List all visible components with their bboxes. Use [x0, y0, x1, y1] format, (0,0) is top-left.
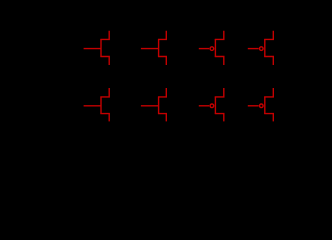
wire drain lead M7 [215, 88, 224, 97]
gate inversion bubble M4 [260, 47, 264, 51]
wire gate lead M7 [199, 105, 209, 107]
wire source lead M7 [215, 114, 224, 122]
wire drain lead M2 [158, 31, 166, 40]
gate bar M5 [100, 97, 102, 115]
gate bar M3 [214, 39, 216, 57]
wire gate lead M8 [248, 105, 259, 107]
transistor M4 (PMOS, top row col 4) [248, 31, 273, 65]
wire drain lead M4 [264, 31, 273, 40]
wire drain lead M8 [264, 88, 273, 97]
gate bar M6 [158, 97, 160, 115]
gate bar M2 [158, 39, 160, 57]
wire source lead M5 [100, 114, 109, 122]
wire gate lead M1 [84, 48, 101, 50]
transistor M3 (PMOS, top row col 3) [199, 31, 224, 65]
wire source lead M6 [158, 114, 166, 122]
wire source lead M1 [100, 57, 109, 66]
wire gate lead M6 [141, 105, 159, 107]
wire gate lead M2 [141, 48, 159, 50]
gate inversion bubble M3 [210, 47, 214, 51]
transistor M1 (NMOS, top row col 1) [84, 31, 110, 65]
wire source lead M3 [215, 57, 224, 66]
gate inversion bubble M8 [260, 104, 264, 108]
wire source lead M2 [158, 57, 166, 66]
transistor M6 (NMOS, bottom row col 2) [141, 88, 166, 121]
wire drain lead M1 [100, 31, 109, 40]
gate bar M4 [264, 39, 266, 57]
transistor M2 (NMOS, top row col 2) [141, 31, 166, 65]
transistor M5 (NMOS, bottom row col 1) [84, 88, 110, 121]
transistor M7 (PMOS, bottom row col 3) [199, 88, 224, 121]
transistor M8 (PMOS, bottom row col 4) [248, 88, 273, 121]
wire gate lead M4 [248, 48, 259, 50]
wire drain lead M3 [215, 31, 224, 40]
wire drain lead M5 [100, 88, 109, 97]
wire gate lead M5 [84, 105, 101, 107]
wire drain lead M6 [158, 88, 166, 97]
wire gate lead M3 [199, 48, 209, 50]
wire source lead M4 [264, 57, 273, 66]
gate bar M1 [100, 39, 102, 57]
gate bar M8 [264, 97, 266, 115]
gate bar M7 [214, 97, 216, 115]
gate inversion bubble M7 [210, 104, 214, 108]
wire source lead M8 [264, 114, 273, 122]
